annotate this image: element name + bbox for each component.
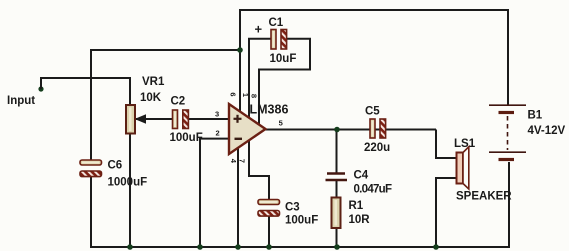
node junction dot output <box>334 127 340 133</box>
svg-text:VR1: VR1 <box>142 76 165 88</box>
svg-text:6: 6 <box>228 92 237 96</box>
wire pin1 up to C1 left <box>249 39 271 120</box>
svg-text:4V-12V: 4V-12V <box>528 125 566 137</box>
wire pin2 to ground <box>200 139 231 247</box>
node junction dot speaker ground <box>433 244 439 250</box>
wire pin7 to C3 <box>249 139 269 200</box>
svg-text:3: 3 <box>215 109 219 118</box>
svg-text:C4: C4 <box>354 170 369 182</box>
wire wiper to C2 <box>136 118 172 120</box>
capacitor C1 polarized plates <box>271 30 287 50</box>
node Input terminal dot <box>38 86 43 91</box>
svg-text:1: 1 <box>241 93 250 97</box>
svg-text:5: 5 <box>279 118 283 127</box>
capacitor C3 polarized plates <box>258 200 280 217</box>
wire output node down to C4 <box>336 130 338 174</box>
svg-text:C5: C5 <box>365 106 380 118</box>
svg-text:Input: Input <box>7 95 35 107</box>
svg-text:7: 7 <box>238 159 247 163</box>
battery B1 cell 1 long plate <box>489 104 526 106</box>
wire ground bottom rail <box>91 162 509 247</box>
svg-text:1000uF: 1000uF <box>108 177 148 189</box>
svg-text:LS1: LS1 <box>454 138 476 150</box>
node junction dot pin2 ground <box>197 244 203 250</box>
svg-text:220u: 220u <box>364 142 390 154</box>
svg-text:10uF: 10uF <box>270 53 297 65</box>
svg-text:C2: C2 <box>171 96 186 108</box>
svg-text:B1: B1 <box>528 110 543 122</box>
svg-text:LM386: LM386 <box>250 103 289 117</box>
svg-text:100uF: 100uF <box>170 132 203 144</box>
wire top rail V+ from pin6 to battery <box>240 10 508 112</box>
svg-text:100uF: 100uF <box>285 215 318 227</box>
svg-text:0.047uF: 0.047uF <box>354 184 393 196</box>
svg-text:R1: R1 <box>349 200 364 212</box>
capacitor C2 polarized plates <box>173 110 189 129</box>
wire pin4 to ground <box>237 146 239 247</box>
capacitor C6 polarized plates <box>80 160 102 177</box>
svg-text:C1: C1 <box>269 17 284 29</box>
wire decoupling from node at pin6 leftward to C6 <box>91 50 239 161</box>
battery B1 cell 1 short plate <box>499 111 515 114</box>
wire C3 bottom to ground <box>268 216 270 247</box>
wire VR1 bottom to ground rail <box>129 133 131 247</box>
wire C1 right down to pin8 <box>259 39 310 126</box>
node junction dot VR1 ground <box>127 244 133 250</box>
svg-text:10K: 10K <box>140 92 162 104</box>
speaker LS1 symbol <box>457 147 469 189</box>
potentiometer VR1 body <box>126 105 135 134</box>
op-amp minus input mark <box>235 138 243 140</box>
capacitor C5 polarized plates <box>370 119 386 138</box>
wire R1 to ground <box>336 228 338 247</box>
svg-text:8: 8 <box>249 94 258 98</box>
wire output pin5 through C5 to speaker <box>264 129 436 131</box>
op-amp plus input mark <box>234 115 242 123</box>
svg-text:+: + <box>255 22 263 37</box>
node junction dot on pin6 wire <box>237 47 243 53</box>
wire C4 to R1 <box>336 180 338 198</box>
wire speaker top terminal <box>436 130 457 159</box>
wire Input to VR1 top <box>41 78 130 106</box>
battery B1 cell 2 long plate <box>489 151 526 153</box>
svg-text:10R: 10R <box>349 214 371 226</box>
resistor R1 body <box>332 198 341 229</box>
node junction dot R1 ground <box>334 244 340 250</box>
battery B1 cell 2 short plate <box>499 158 515 161</box>
node junction dot pin4 ground <box>235 244 241 250</box>
node junction dot C3 ground <box>266 244 272 250</box>
op-amp U1 LM386 triangle <box>229 104 266 154</box>
battery B1 dashed link <box>507 116 509 150</box>
wiper arrowhead of VR1 <box>135 114 147 123</box>
svg-text:C3: C3 <box>285 202 300 214</box>
svg-text:SPEAKER: SPEAKER <box>456 191 512 203</box>
wire speaker bottom terminal to ground <box>436 178 457 247</box>
svg-text:2: 2 <box>216 128 220 137</box>
svg-text:C6: C6 <box>108 160 123 172</box>
capacitor C4 plates <box>326 174 348 181</box>
wire C2 to pin3 <box>189 118 231 120</box>
